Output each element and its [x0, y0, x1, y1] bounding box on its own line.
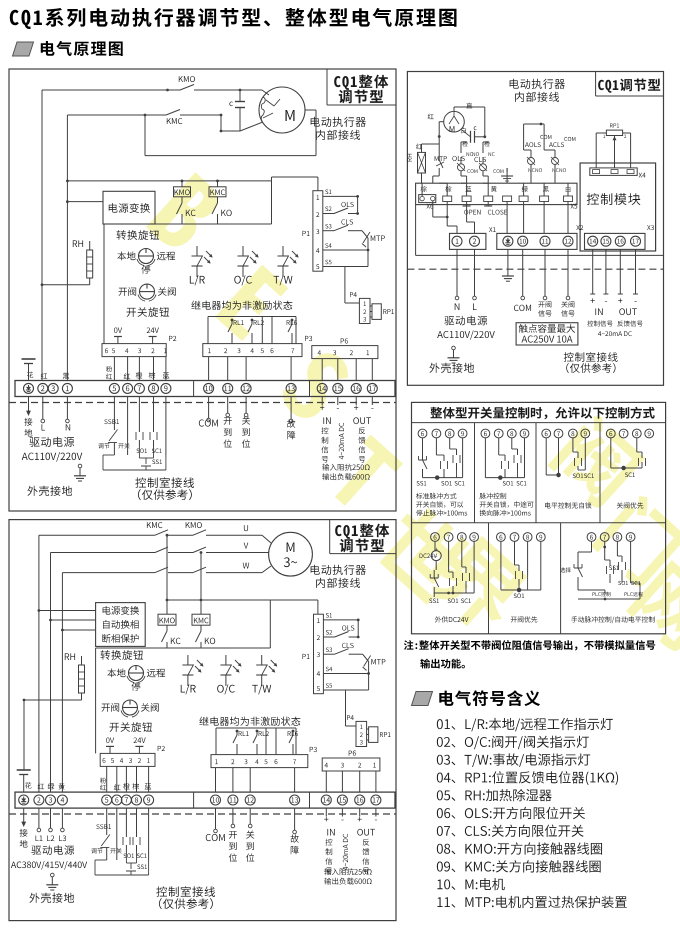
thermal protector MTP box2 — [354, 653, 363, 655]
wire S5 to P4 box2 — [345, 690, 347, 726]
note line1 — [404, 640, 655, 650]
symbol list item 03 — [437, 753, 590, 767]
wire S5 to P4 — [344, 267, 346, 304]
rotary open-close box2 — [123, 700, 138, 715]
impedance note box1 — [322, 464, 369, 471]
wire converter feed — [67, 201, 103, 203]
potentiometer RP1 box1 — [372, 304, 381, 320]
wires P3 to strip box2 — [215, 768, 217, 793]
dashed separator box2 — [9, 813, 396, 815]
page title — [10, 8, 457, 29]
connector P3 box2 — [211, 755, 308, 768]
connector X5 X6 — [416, 183, 577, 204]
control module box — [580, 163, 656, 251]
relay RL1 box2 — [236, 731, 238, 735]
potentiometer RP1 box2 — [369, 727, 378, 743]
line L below — [42, 397, 44, 420]
P1 row S1 — [323, 195, 358, 197]
wire phase open — [42, 89, 168, 91]
close-pos lead — [245, 397, 247, 414]
capacitor c — [235, 101, 245, 103]
control-room label box2 — [156, 886, 215, 897]
potentiometer RP1 rbox1 — [610, 123, 619, 127]
wires P6 to strip — [321, 359, 323, 381]
LED T/W box2 — [261, 655, 263, 665]
aux switch ACLS — [549, 142, 564, 147]
phase V wire — [51, 552, 156, 554]
rbox1 title text — [598, 79, 660, 93]
symbol list item 09 — [437, 860, 601, 872]
symbol list item 05 — [437, 789, 552, 801]
phase leads box2 — [38, 808, 40, 828]
box1 subtitle — [311, 117, 366, 127]
mode cell manual-auto — [587, 533, 596, 542]
symbol list item 02 — [437, 736, 589, 750]
open-pos lead box2 — [232, 808, 234, 824]
terminal strip box2 — [15, 792, 395, 808]
coil KMO K1 — [174, 187, 191, 197]
LED O/C box2 — [225, 655, 227, 665]
relay RL1 — [231, 320, 233, 324]
close-pos lead box2 — [249, 808, 251, 824]
switch group SSB1 — [113, 397, 115, 431]
terminal strip box1 — [15, 381, 395, 397]
rotary2 label box2 — [110, 722, 153, 732]
control-room label box1 — [135, 477, 194, 488]
supply label box2 — [31, 845, 74, 855]
heater RH rbox1 — [416, 144, 422, 150]
COM lead — [208, 397, 210, 419]
connector P3 box1 — [203, 344, 302, 357]
section icon 2 — [412, 692, 433, 706]
box2 title box — [329, 520, 331, 554]
limit switch CLS box2 — [342, 643, 354, 648]
OPEN CLOSE taps — [466, 202, 468, 207]
symbol list item 06 — [437, 807, 585, 819]
N L leads rbox1 — [456, 249, 458, 296]
box1 outer frame — [9, 69, 396, 511]
LED O/C — [242, 246, 244, 256]
case ground rbox1 — [452, 346, 456, 350]
line N below — [66, 397, 68, 420]
motor top wire — [453, 107, 455, 111]
symbol list item 08 — [437, 842, 602, 854]
motor M3 — [444, 111, 465, 132]
wire coil bus — [67, 180, 271, 182]
micro CLS — [474, 157, 486, 162]
power converter box1 — [103, 191, 155, 224]
micro OLS — [452, 156, 464, 161]
motor M2 — [269, 532, 313, 576]
case ground box1 — [78, 464, 82, 468]
wires P3 to strip — [208, 357, 210, 381]
contact KC — [181, 197, 183, 203]
contact KMO — [168, 89, 181, 91]
wire motor return — [144, 115, 146, 156]
rotary local-remote — [139, 249, 154, 264]
rbox1 subtitle — [510, 79, 565, 89]
wire colour labels box1 — [27, 372, 33, 378]
phase W wire — [62, 572, 155, 574]
case ground box2 — [51, 873, 55, 877]
note line2 — [420, 659, 465, 669]
contact KO box2 — [200, 625, 202, 631]
IN OUT rbox1 — [592, 249, 594, 294]
connector P4 box2 — [356, 721, 367, 746]
rotary selector label box2 — [100, 650, 143, 660]
contact KMC — [145, 114, 166, 116]
heater RH — [73, 240, 83, 247]
limit switch CLS — [341, 219, 353, 224]
enclosure bottom — [415, 205, 417, 256]
earth lead-out — [28, 397, 30, 412]
fault lead box2 — [294, 808, 296, 830]
close signal lead — [567, 249, 569, 296]
wire RH branch — [42, 284, 90, 286]
symbol list item 07 — [437, 825, 584, 837]
box1 title text — [334, 75, 388, 90]
coil KMO box2 — [158, 614, 176, 625]
P1 row S5 — [323, 266, 368, 268]
wires P2 to strip — [113, 357, 115, 381]
phase feeders — [38, 535, 40, 610]
LED T/W — [282, 246, 284, 256]
phase U wire — [39, 534, 155, 536]
wire L feed — [41, 90, 43, 381]
dashed separator rbox1 — [407, 268, 663, 270]
open-pos lead — [227, 397, 229, 414]
mode cell level control — [542, 429, 551, 438]
wire S1-S2 bus — [357, 196, 359, 213]
X2 earth stub — [507, 249, 509, 276]
wire to motor top — [240, 89, 262, 91]
relay RL6 — [291, 320, 293, 324]
relay note box2 — [199, 717, 300, 726]
mode cell close priority — [606, 429, 615, 438]
box2 outer frame — [9, 520, 396, 921]
LED L/R — [196, 246, 198, 256]
wire P1 feed — [271, 177, 273, 181]
connector X4 — [590, 168, 637, 176]
LED L/R box2 — [187, 655, 189, 665]
control-room label rbox1 — [564, 352, 618, 362]
box1 title box — [326, 69, 328, 105]
connector X3 — [585, 233, 646, 249]
wires X5 down — [446, 202, 448, 227]
connector P1 box2 — [314, 614, 324, 694]
relay bus box2 — [216, 727, 296, 729]
rbox2 outer frame — [412, 402, 666, 633]
section header 1 — [41, 41, 123, 56]
P1 row S5 box2 — [323, 689, 368, 691]
connector P6 box1 — [312, 346, 378, 359]
rotary local-remote box2 — [129, 666, 144, 681]
box2 title text — [335, 524, 389, 539]
contact labels box2 — [147, 522, 163, 528]
relay bus box1 — [208, 316, 296, 318]
rotary2 label — [127, 307, 170, 317]
rotary open-close — [140, 284, 155, 299]
symbol list item 11 — [437, 896, 626, 908]
wire colour labels box2 — [25, 782, 31, 788]
connector P2 box2 — [100, 753, 155, 766]
coil KMC K1 — [209, 187, 226, 197]
motor left wire — [428, 114, 434, 120]
supply label box1 — [29, 437, 74, 447]
thermal protector MTP — [353, 230, 362, 232]
rbox1 title box — [595, 72, 597, 97]
earth above strip box2 — [17, 769, 31, 771]
COM lead rbox1 — [522, 249, 524, 296]
wire KC-KO join box2 — [96, 647, 271, 649]
mode cell standard pulse — [418, 429, 427, 438]
switch group SSB1 box2 — [106, 808, 108, 835]
wires P6 to strip box2 — [325, 771, 327, 792]
inner panel left edge box2 — [95, 648, 97, 753]
relay plain pins box2 — [265, 728, 267, 755]
earth above strip box1 — [22, 358, 36, 360]
wires RP1 to X4 — [599, 167, 602, 169]
connector P1 box1 — [313, 191, 323, 272]
power converter box2 — [96, 603, 146, 647]
wires P2 to strip box2 — [106, 766, 108, 792]
box2 subtitle — [311, 565, 366, 575]
relay RL2 — [251, 320, 253, 324]
COM lead box2 — [215, 808, 217, 829]
wire bus drop — [271, 181, 273, 224]
earth lead-out box2 — [23, 808, 25, 822]
contact KO — [217, 197, 219, 203]
section icon 1 — [13, 42, 34, 56]
mode cell pulse control — [481, 429, 490, 438]
P1 row S1 box2 — [323, 619, 358, 621]
X5 feeder joins — [421, 182, 424, 184]
connector P4 — [359, 298, 370, 323]
wire N feed — [66, 115, 68, 381]
P1 row S4 box2 — [323, 673, 368, 675]
motor M1 — [259, 87, 305, 133]
inner panel left edge — [103, 224, 105, 344]
wires into X5 top — [421, 183, 423, 196]
IN OUT leads box2 — [325, 808, 327, 816]
rbox1 outer frame — [407, 72, 663, 386]
P1 row S4 — [323, 249, 368, 251]
X6 stub wire — [432, 201, 434, 217]
coil feed wires box2 — [166, 535, 168, 614]
IN OUT leads box1 — [321, 397, 323, 406]
contact KC box2 — [166, 625, 168, 631]
wire KC-KO join — [104, 223, 272, 225]
wire motor bottom-left — [220, 115, 222, 131]
wire S1-S2 bus box2 — [357, 620, 359, 637]
aux switch AOLS — [525, 142, 541, 147]
aux top bus — [524, 123, 545, 125]
connector X1 — [450, 233, 486, 249]
heater RH box2 — [65, 653, 75, 660]
relay note box1 — [191, 301, 292, 310]
relay RL2 box2 — [256, 731, 258, 735]
rbox2 title — [430, 407, 654, 420]
wire phase close — [67, 114, 145, 116]
connector P2 box1 — [102, 344, 166, 357]
section header 2 — [439, 690, 540, 706]
symbol list item 04 — [437, 771, 618, 785]
impedance note box2 — [324, 868, 371, 875]
dashed separator box1 — [9, 402, 396, 404]
connector X2 — [497, 233, 577, 249]
fault lead — [290, 397, 292, 420]
watermark — [146, 172, 680, 655]
supply label rbox1 — [444, 316, 487, 326]
mode cell open priority — [497, 533, 506, 542]
internal earth — [506, 176, 508, 183]
symbol list item 01 — [437, 718, 613, 732]
contact rating box — [516, 323, 578, 345]
thermal MTP rbox1 — [435, 156, 447, 161]
mode cell external DC24V — [431, 533, 440, 542]
limit switch OLS — [341, 202, 353, 207]
rbox2 grid — [412, 522, 666, 524]
relay plain pins — [261, 317, 263, 344]
coil KMC box2 — [192, 614, 210, 625]
rotary selector label — [116, 230, 159, 240]
capacitor C rbox1 — [474, 126, 477, 130]
relay RL6 box2 — [292, 731, 294, 735]
connector P6 box2 — [322, 758, 380, 771]
open signal lead — [544, 249, 546, 296]
limit switch OLS box2 — [342, 625, 354, 630]
symbol list item 10 — [437, 878, 504, 890]
